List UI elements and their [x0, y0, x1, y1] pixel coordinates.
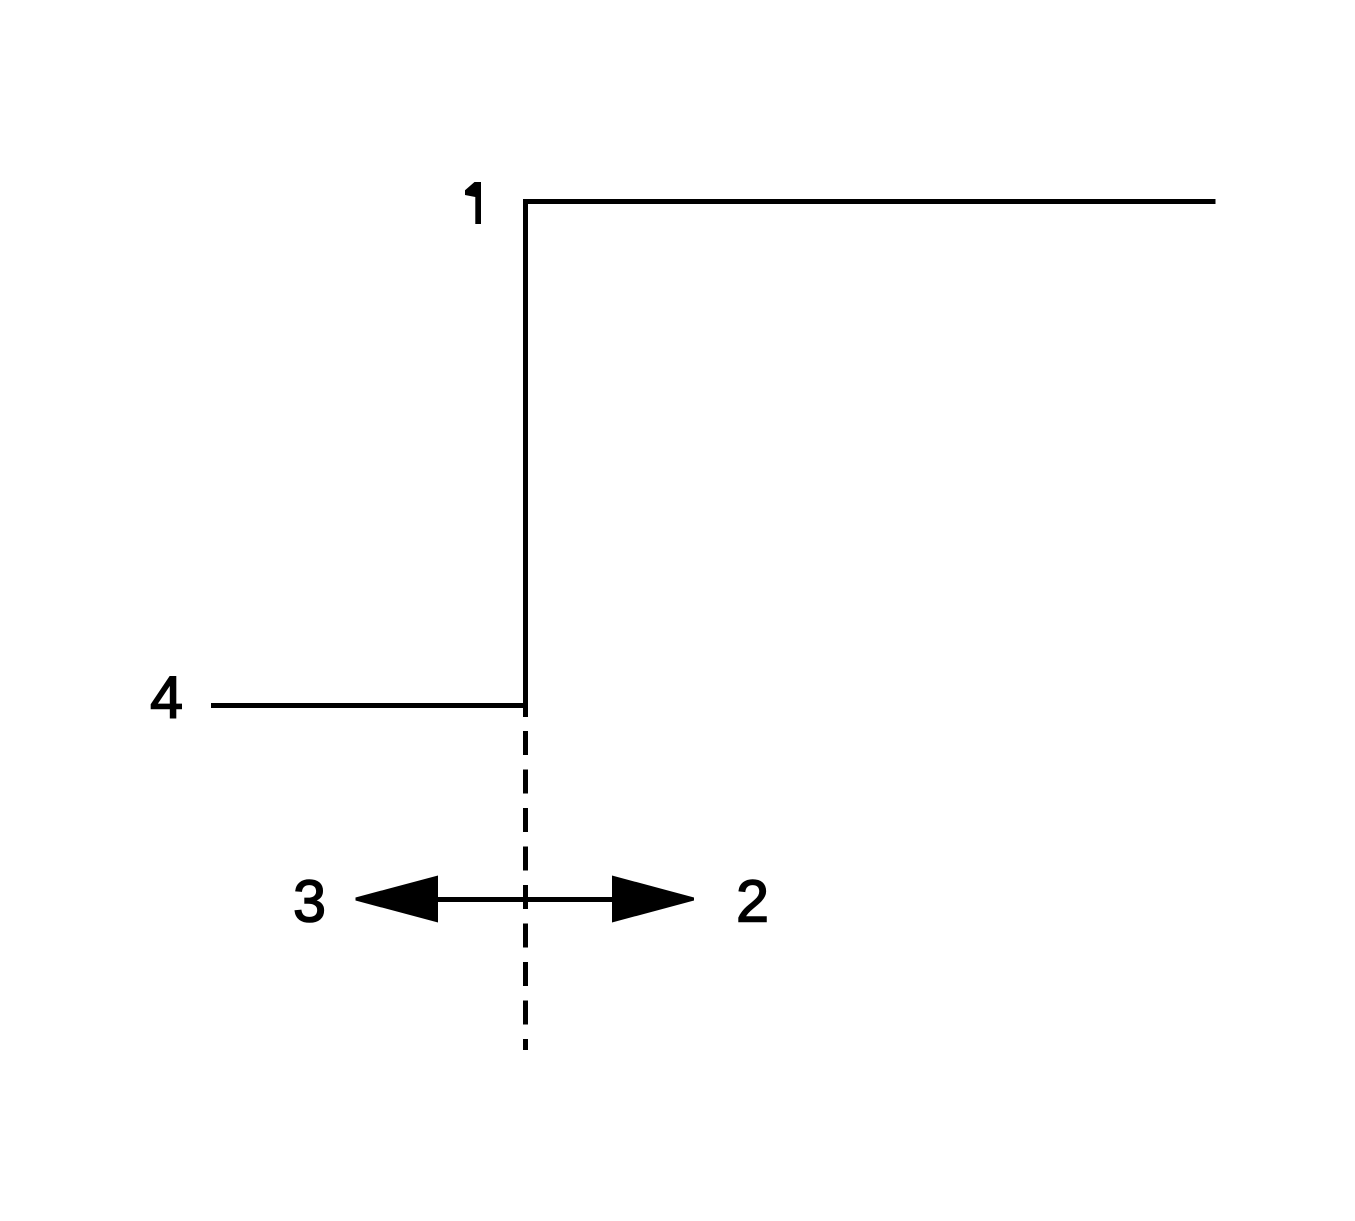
- svg-text:4: 4: [150, 665, 183, 731]
- svg-text:2: 2: [736, 869, 769, 935]
- svg-text:3: 3: [293, 869, 326, 935]
